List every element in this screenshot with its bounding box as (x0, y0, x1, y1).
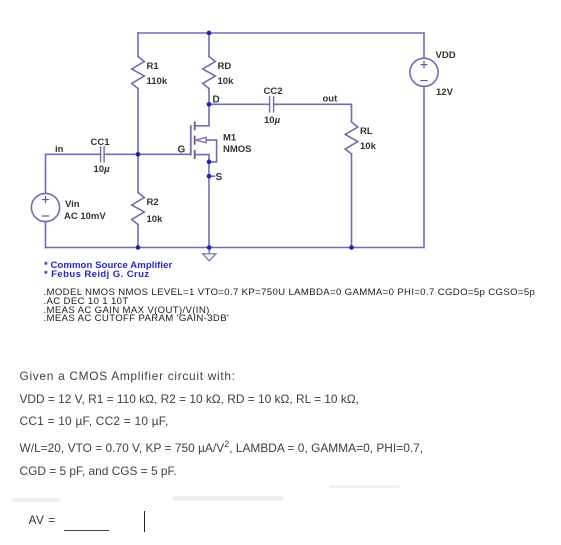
wire: S node stub (209, 175, 215, 177)
wire: CC1 to node G (104, 153, 138, 155)
wire: R1 bottom lead to node G (137, 89, 139, 155)
wire: R2 bottom lead (137, 225, 139, 248)
wire: Vin top lead (45, 154, 47, 193)
answer underline (64, 530, 109, 531)
svg-text:R2: R2 (147, 197, 159, 208)
svg-text:10µ: 10µ (94, 164, 111, 175)
junction: top rail / RD (207, 31, 212, 36)
svg-text:Vin: Vin (65, 199, 80, 210)
transistor M1 drain channel tick (194, 122, 196, 129)
junction: bulk-source (207, 160, 212, 165)
wire: CC2 to out corner (274, 104, 352, 122)
wire: RL bottom lead (351, 154, 353, 248)
junction dots (136, 31, 354, 250)
svg-text:10k: 10k (218, 76, 235, 87)
svg-text:out: out (323, 94, 339, 105)
wire: gate lead (138, 153, 191, 155)
resistor RL (345, 122, 358, 154)
Vin source polarity marks (42, 197, 48, 216)
voltage source VDD circle (410, 58, 438, 86)
schematic text labels (55, 50, 456, 225)
svg-text:AC 10mV: AC 10mV (64, 211, 106, 222)
wire: M1 bulk to source (206, 140, 216, 162)
svg-text:CC1: CC1 (91, 137, 111, 148)
spice directives (44, 289, 536, 324)
svg-text:G: G (178, 145, 186, 156)
voltage source Vin circle (31, 193, 59, 221)
svg-text:VDD: VDD (436, 50, 456, 61)
faint smudge marks (12, 498, 60, 502)
svg-text:110k: 110k (147, 76, 168, 87)
wire: M1 drain stub up to node D (195, 104, 209, 126)
svg-text:M1: M1 (223, 133, 237, 144)
VDD source polarity marks (421, 62, 427, 81)
svg-text:10µ: 10µ (264, 115, 281, 126)
svg-text:D: D (213, 95, 220, 106)
answer line AV (29, 513, 56, 527)
junction: node G (136, 152, 141, 157)
svg-text:NMOS: NMOS (223, 144, 252, 155)
transistor M1 source channel tick (194, 151, 196, 158)
svg-text:R1: R1 (147, 61, 160, 72)
svg-text:in: in (55, 144, 64, 155)
wire: RD bottom lead to node D (208, 89, 210, 105)
comment: Common Source Amplifier (44, 261, 172, 280)
wire: R2 top lead (137, 154, 139, 192)
svg-text:CC2: CC2 (264, 86, 283, 97)
wire: VDD top rail (138, 32, 424, 34)
schematic SVG (0, 0, 561, 340)
wire: RD top lead (208, 33, 210, 57)
junction: node D (207, 102, 212, 107)
svg-text:S: S (216, 172, 223, 183)
transistor M1 bulk channel tick (194, 137, 196, 144)
text cursor (144, 511, 145, 532)
resistor R1 (132, 57, 145, 89)
junction: ground symbol (207, 245, 212, 250)
resistor RD (203, 57, 216, 89)
junction: node S (207, 174, 212, 179)
svg-text:12V: 12V (436, 87, 454, 98)
problem statement (20, 370, 236, 383)
svg-text:10k: 10k (147, 214, 164, 225)
transistor M1 bulk arrow (196, 137, 206, 142)
svg-text:RD: RD (218, 61, 232, 72)
junction: RL / ground rail (349, 245, 354, 250)
capacitor CC2 (270, 97, 274, 112)
svg-text:10k: 10k (360, 141, 377, 152)
wire: R1 top lead (137, 33, 139, 57)
transistor M1 gate bar (190, 126, 192, 155)
wire: M1 source stub (195, 155, 209, 162)
svg-text:RL: RL (360, 126, 373, 137)
capacitor CC1 (101, 147, 105, 162)
wire: source down to ground rail (208, 162, 210, 248)
wire: VDD source top lead (423, 33, 425, 58)
ground symbol (203, 248, 216, 261)
wire: Vin bottom lead (45, 222, 47, 248)
wire: VDD source bottom lead (423, 86, 425, 247)
wire: in net (46, 153, 101, 155)
junction: R2 / ground rail (136, 245, 141, 250)
resistor R2 (132, 193, 145, 225)
wire: node D to CC2 (209, 103, 270, 105)
wire: bottom ground rail (46, 247, 425, 249)
